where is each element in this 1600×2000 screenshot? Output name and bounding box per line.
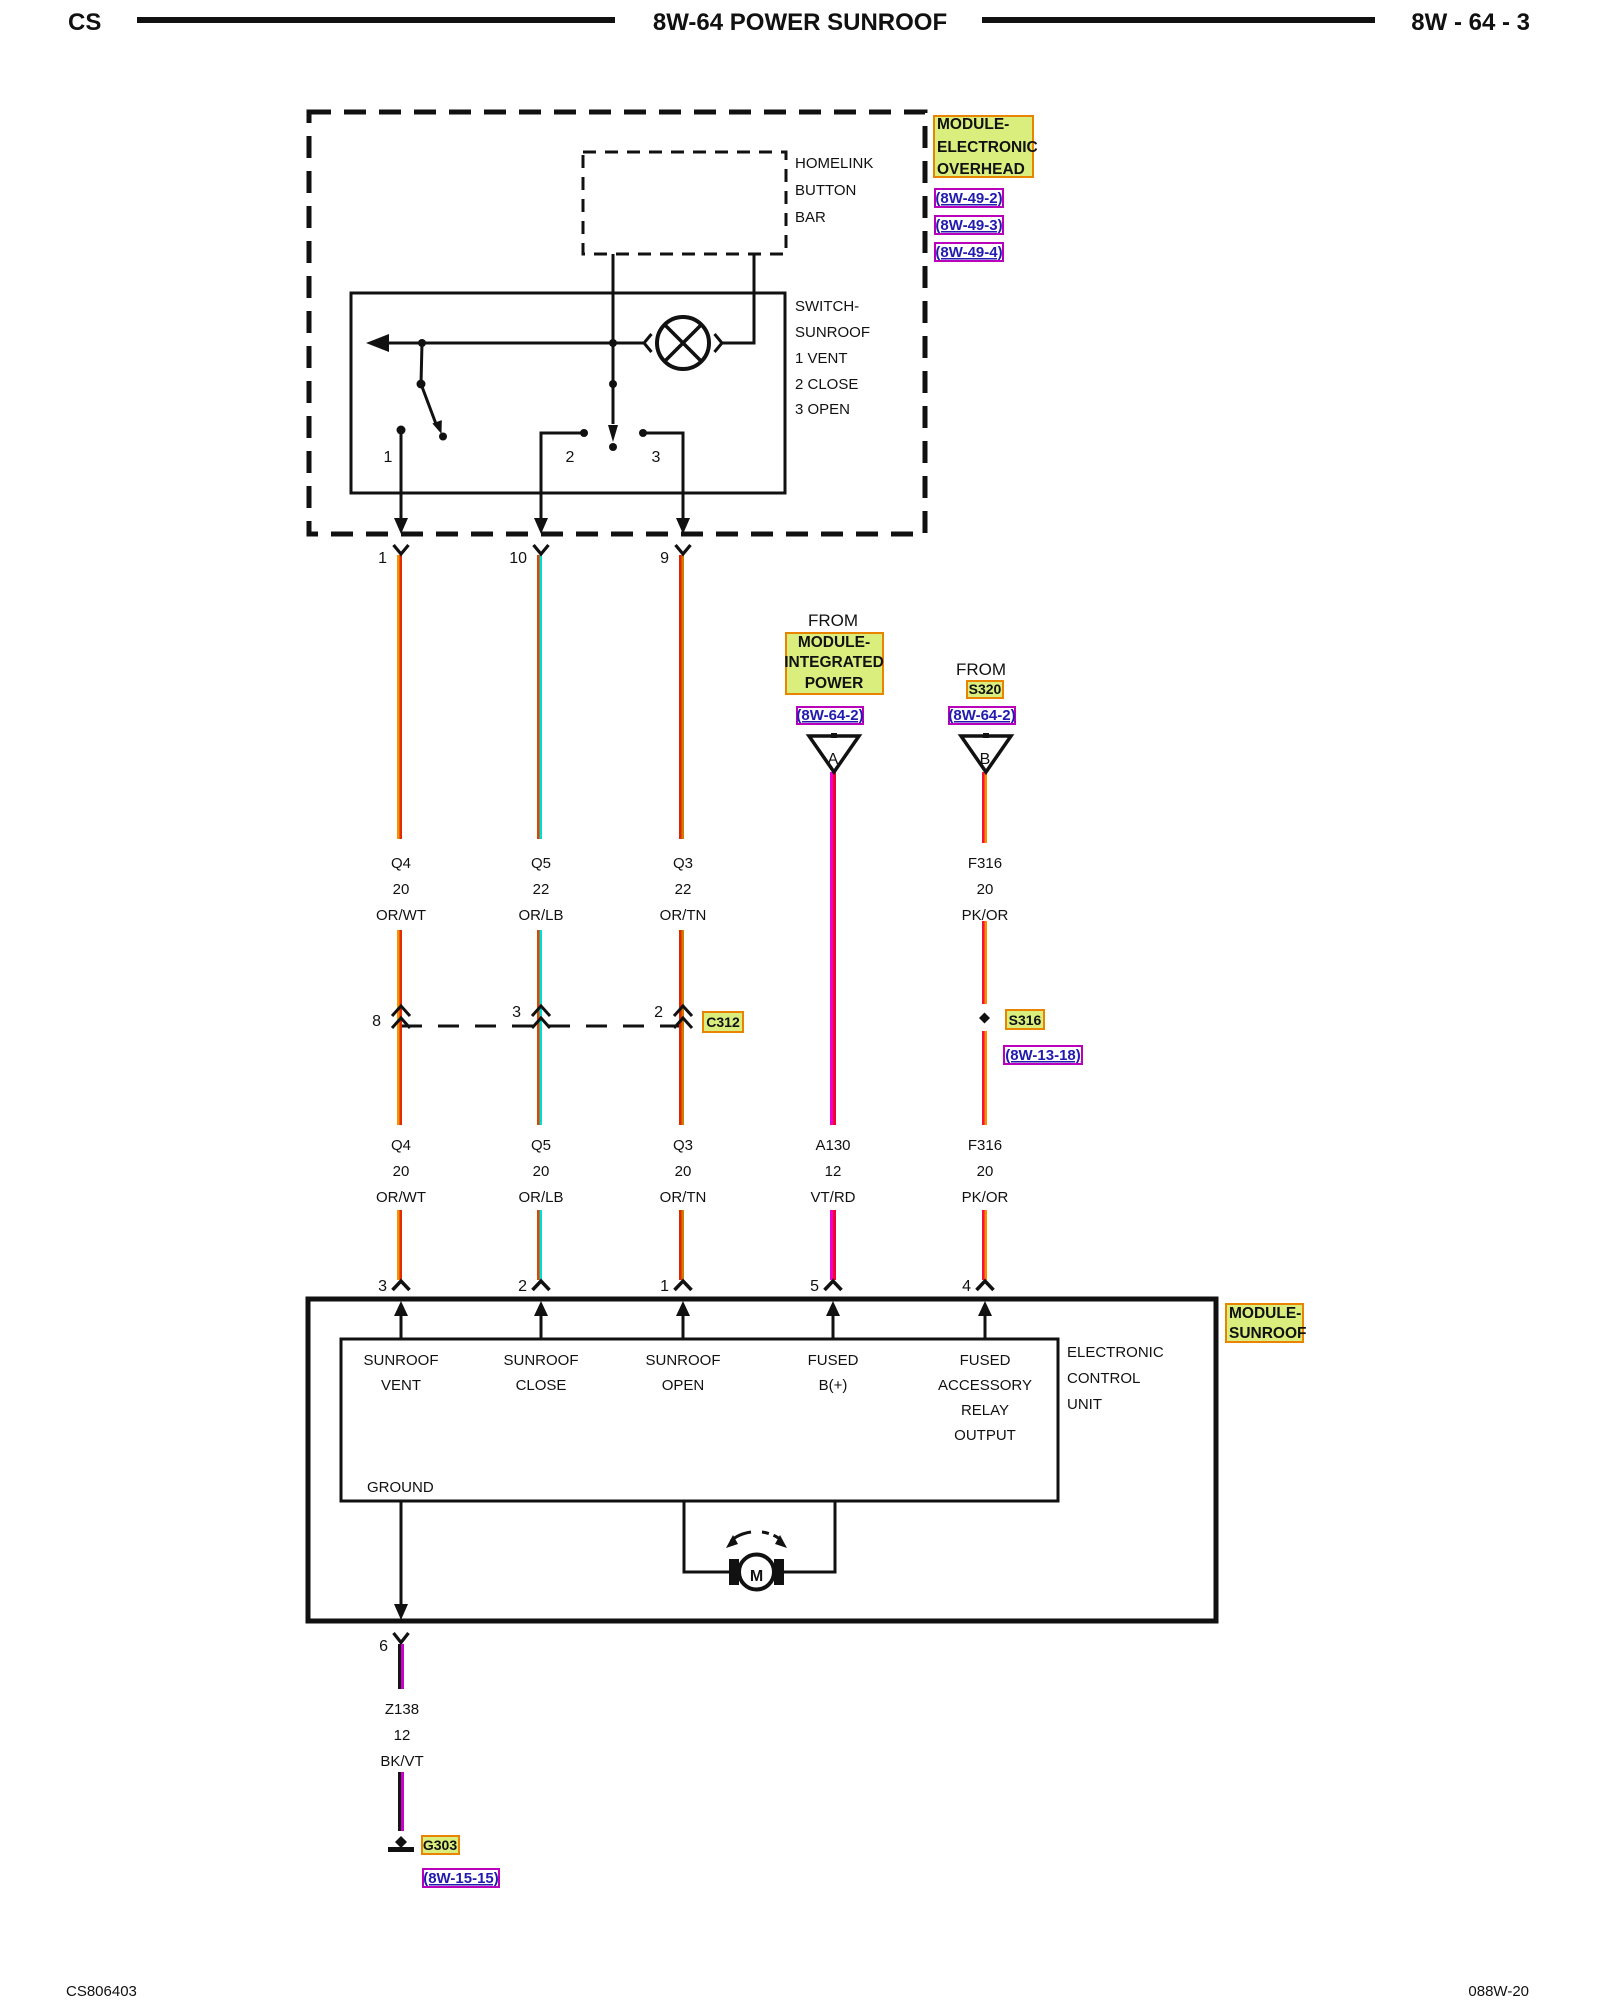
wire from homelink box to switch common — [612, 254, 615, 424]
module pin 5 connector — [810, 1278, 841, 1295]
module pin 4 connector — [962, 1278, 993, 1295]
lamp illumination — [644, 317, 722, 369]
header rule left — [137, 17, 615, 23]
header rule right — [982, 17, 1375, 23]
wire Z138 BK/VT lower — [398, 1772, 404, 1831]
svg-text:12: 12 — [394, 1727, 411, 1744]
label FUSED B(+) — [808, 1352, 859, 1394]
pin 2 entry arrow — [534, 1301, 548, 1339]
wire label Q4 20 OR/WT lower — [376, 1137, 426, 1206]
svg-text:VT/RD: VT/RD — [811, 1189, 856, 1206]
svg-text:SWITCH-: SWITCH- — [795, 298, 859, 315]
svg-text:FUSED: FUSED — [808, 1352, 859, 1369]
svg-text:CONTROL: CONTROL — [1067, 1370, 1140, 1387]
connector pin 1 — [378, 545, 408, 567]
svg-text:20: 20 — [675, 1163, 692, 1180]
FOOTER — [66, 1983, 1529, 2000]
svg-text:(8W-49-4): (8W-49-4) — [935, 244, 1002, 261]
label HOMELINK BUTTON BAR — [795, 155, 873, 226]
svg-text:8: 8 — [372, 1013, 381, 1030]
svg-text:PK/OR: PK/OR — [962, 907, 1009, 924]
svg-text:Z138: Z138 — [385, 1701, 419, 1718]
wire A130 VT/RD upper — [830, 772, 836, 1125]
label SWITCH-SUNROOF 1 VENT 2 CLOSE 3 OPEN — [795, 298, 870, 418]
wire F316 PK/OR upper — [982, 772, 987, 843]
svg-text:FUSED: FUSED — [960, 1352, 1011, 1369]
svg-text:OVERHEAD: OVERHEAD — [937, 161, 1025, 178]
motor rotation arrow left — [726, 1532, 751, 1548]
link 8W-15-15 — [423, 1869, 499, 1887]
HEADER — [68, 9, 1530, 36]
link 8W-64-2 left — [796, 707, 863, 724]
svg-text:G303: G303 — [423, 1837, 457, 1853]
module pin 2 connector — [518, 1278, 549, 1295]
svg-text:OR/LB: OR/LB — [518, 1189, 563, 1206]
connector C312 pin 2 — [654, 1004, 692, 1028]
wire label Q5 20 OR/LB lower — [518, 1137, 563, 1206]
connector C312 pin 3 — [512, 1004, 550, 1028]
svg-text:1 VENT: 1 VENT — [795, 350, 848, 367]
wire Q5 OR/LB upper — [537, 555, 542, 839]
wire Q5 OR/LB middle — [537, 930, 542, 1125]
svg-text:Q3: Q3 — [673, 855, 693, 872]
connector pin 10 — [509, 545, 548, 567]
node junction lamp feed — [609, 339, 617, 347]
wire label F316 20 PK/OR lower — [962, 1137, 1009, 1206]
wire label Q5 22 OR/LB upper — [518, 855, 563, 924]
svg-text:1: 1 — [660, 1278, 669, 1295]
svg-text:2: 2 — [566, 449, 575, 466]
link 8W-49-3 — [935, 216, 1003, 234]
svg-text:SUNROOF: SUNROOF — [795, 324, 870, 341]
svg-text:F316: F316 — [968, 1137, 1002, 1154]
svg-text:OPEN: OPEN — [662, 1377, 705, 1394]
svg-text:Q3: Q3 — [673, 1137, 693, 1154]
svg-text:F316: F316 — [968, 855, 1002, 872]
label MODULE-SUNROOF — [1226, 1304, 1307, 1342]
wire Q5 OR/LB lower — [537, 1210, 542, 1280]
svg-text:C312: C312 — [706, 1014, 740, 1030]
wire Z138 BK/VT upper — [398, 1644, 404, 1689]
svg-text:22: 22 — [675, 881, 692, 898]
motor M — [729, 1555, 784, 1590]
svg-text:SUNROOF: SUNROOF — [646, 1352, 721, 1369]
pin 1 entry arrow — [676, 1301, 690, 1339]
svg-text:088W-20: 088W-20 — [1468, 1983, 1529, 2000]
link 8W-49-2 — [935, 189, 1003, 207]
contact 1 — [394, 426, 408, 535]
wire label Q4 20 OR/WT upper — [376, 855, 426, 924]
connector pin 9 — [660, 545, 690, 567]
svg-text:2 CLOSE: 2 CLOSE — [795, 376, 858, 393]
svg-text:SUNROOF: SUNROOF — [364, 1352, 439, 1369]
svg-text:CS806403: CS806403 — [66, 1983, 137, 2000]
svg-text:ELECTRONIC: ELECTRONIC — [1067, 1344, 1164, 1361]
svg-text:MODULE-: MODULE- — [937, 116, 1009, 133]
contact 3 — [639, 429, 690, 534]
pin 5 entry arrow — [826, 1301, 840, 1339]
label ELECTRONIC CONTROL UNIT — [1067, 1344, 1164, 1413]
svg-text:Q5: Q5 — [531, 1137, 551, 1154]
label G303 — [422, 1836, 459, 1854]
svg-text:OR/TN: OR/TN — [660, 907, 707, 924]
svg-text:OR/WT: OR/WT — [376, 907, 426, 924]
svg-text:20: 20 — [977, 881, 994, 898]
svg-text:4: 4 — [962, 1278, 971, 1295]
svg-text:8W - 64 - 3: 8W - 64 - 3 — [1411, 9, 1530, 36]
label SUNROOF OPEN — [646, 1352, 721, 1394]
label S316 — [1006, 1010, 1044, 1029]
ground G303 symbol — [388, 1836, 414, 1852]
svg-text:Q4: Q4 — [391, 855, 411, 872]
label S320 — [967, 681, 1003, 698]
off-page connector B — [961, 733, 1011, 772]
off-page connector A — [809, 733, 859, 772]
svg-text:OR/LB: OR/LB — [518, 907, 563, 924]
svg-text:POWER: POWER — [805, 675, 864, 692]
label MODULE-INTEGRATED POWER — [784, 633, 884, 694]
wire Q4 OR/WT upper — [397, 555, 402, 839]
switch pole vent — [417, 343, 448, 441]
svg-text:ACCESSORY: ACCESSORY — [938, 1377, 1032, 1394]
link 8W-13-18 — [1004, 1046, 1082, 1064]
module pin 1 connector — [660, 1278, 691, 1295]
svg-text:B(+): B(+) — [819, 1377, 848, 1394]
wire from homelink box to lamp — [722, 254, 754, 343]
svg-text:2: 2 — [654, 1004, 663, 1021]
wire F316 PK/OR mid1 — [982, 921, 987, 1004]
label MODULE-ELECTRONIC OVERHEAD — [934, 116, 1038, 178]
svg-text:20: 20 — [393, 881, 410, 898]
svg-text:3: 3 — [652, 449, 661, 466]
svg-text:CLOSE: CLOSE — [516, 1377, 567, 1394]
wire common feed with left arrow — [388, 342, 644, 345]
wire F316 PK/OR lower — [982, 1210, 987, 1280]
node junction on common feed — [418, 339, 426, 347]
svg-text:A130: A130 — [815, 1137, 850, 1154]
svg-text:6: 6 — [379, 1638, 388, 1655]
connector C312 pin 8 — [372, 1006, 410, 1030]
BOTTOM GROUND — [379, 1633, 499, 1887]
switch-sunroof box — [351, 293, 785, 493]
svg-text:(8W-64-2): (8W-64-2) — [796, 707, 863, 724]
wire Q3 OR/TN upper — [679, 555, 684, 839]
motor leg right — [783, 1501, 835, 1572]
svg-text:12: 12 — [825, 1163, 842, 1180]
homelink button bar dashed box — [583, 152, 786, 254]
svg-text:(8W-13-18): (8W-13-18) — [1005, 1047, 1081, 1064]
module pin 3 connector — [378, 1278, 409, 1295]
motor leg left — [684, 1501, 730, 1572]
svg-text:M: M — [750, 1568, 763, 1585]
svg-text:22: 22 — [533, 881, 550, 898]
electronic control unit box — [341, 1339, 1058, 1501]
wire label F316 20 PK/OR upper — [962, 855, 1009, 924]
svg-text:OR/WT: OR/WT — [376, 1189, 426, 1206]
splice S316 — [979, 1013, 990, 1024]
svg-text:FROM: FROM — [808, 611, 858, 630]
svg-text:Q5: Q5 — [531, 855, 551, 872]
svg-text:(8W-64-2): (8W-64-2) — [948, 707, 1015, 724]
link 8W-64-2 right — [948, 707, 1015, 724]
svg-text:OUTPUT: OUTPUT — [954, 1427, 1016, 1444]
contact 2 — [534, 429, 588, 534]
C312 harness dashed line — [401, 1025, 694, 1028]
svg-text:MODULE-: MODULE- — [798, 634, 870, 651]
wire Q3 OR/TN lower — [679, 1210, 684, 1280]
svg-text:B: B — [980, 751, 991, 768]
svg-text:HOMELINK: HOMELINK — [795, 155, 873, 172]
pin 3 entry arrow — [394, 1301, 408, 1339]
svg-text:(8W-15-15): (8W-15-15) — [423, 1870, 499, 1887]
pin 4 entry arrow — [978, 1301, 992, 1339]
svg-text:MODULE-: MODULE- — [1229, 1305, 1301, 1322]
svg-text:8W-64 POWER SUNROOF: 8W-64 POWER SUNROOF — [653, 9, 947, 36]
svg-text:INTEGRATED: INTEGRATED — [784, 654, 884, 671]
svg-text:SUNROOF: SUNROOF — [1229, 1325, 1307, 1342]
svg-text:RELAY: RELAY — [961, 1402, 1009, 1419]
OUTER DASHED MODULE BOX — [309, 112, 1038, 534]
svg-text:9: 9 — [660, 550, 669, 567]
wire label Z138 12 BK/VT — [380, 1701, 423, 1770]
svg-text:A: A — [828, 751, 839, 768]
wire label Q3 20 OR/TN lower — [660, 1137, 707, 1206]
SWITCH AREA — [351, 254, 870, 534]
MODULE SUNROOF BOX — [308, 1299, 1307, 1621]
svg-text:3: 3 — [512, 1004, 521, 1021]
svg-text:3 OPEN: 3 OPEN — [795, 401, 850, 418]
svg-text:10: 10 — [509, 550, 527, 567]
label FUSED ACCESSORY RELAY OUTPUT — [938, 1352, 1032, 1444]
wire label A130 12 VT/RD lower — [811, 1137, 856, 1206]
WIRES COLUMNS — [372, 545, 1082, 1295]
ground internal line — [394, 1501, 408, 1620]
svg-text:BUTTON: BUTTON — [795, 182, 856, 199]
wire Q4 OR/WT middle — [397, 930, 402, 1125]
label SUNROOF CLOSE — [504, 1352, 579, 1394]
svg-text:20: 20 — [393, 1163, 410, 1180]
svg-text:1: 1 — [378, 550, 387, 567]
svg-text:S316: S316 — [1009, 1012, 1042, 1028]
motor rotation arrow right — [762, 1532, 787, 1548]
svg-text:(8W-49-3): (8W-49-3) — [935, 217, 1002, 234]
svg-text:PK/OR: PK/OR — [962, 1189, 1009, 1206]
svg-text:VENT: VENT — [381, 1377, 421, 1394]
wire A130 VT/RD lower — [830, 1210, 836, 1280]
svg-text:CS: CS — [68, 9, 101, 36]
label SUNROOF VENT — [364, 1352, 439, 1394]
link 8W-49-4 — [935, 243, 1003, 261]
wire Q3 OR/TN middle — [679, 930, 684, 1125]
switch pole center with arrow — [608, 380, 618, 451]
label C312 — [703, 1012, 743, 1032]
svg-text:2: 2 — [518, 1278, 527, 1295]
svg-text:1: 1 — [384, 449, 393, 466]
contact position numbers — [384, 449, 661, 466]
wire label Q3 22 OR/TN upper — [660, 855, 707, 924]
svg-text:OR/TN: OR/TN — [660, 1189, 707, 1206]
svg-text:FROM: FROM — [956, 660, 1006, 679]
module pin 6 connector — [379, 1633, 408, 1655]
module-electronic overhead dashed boundary — [309, 112, 925, 534]
svg-text:(8W-49-2): (8W-49-2) — [935, 190, 1002, 207]
svg-text:5: 5 — [810, 1278, 819, 1295]
svg-text:BK/VT: BK/VT — [380, 1753, 423, 1770]
svg-text:SUNROOF: SUNROOF — [504, 1352, 579, 1369]
svg-text:UNIT: UNIT — [1067, 1396, 1102, 1413]
svg-text:BAR: BAR — [795, 209, 826, 226]
wire Q4 OR/WT lower — [397, 1210, 402, 1280]
svg-text:Q4: Q4 — [391, 1137, 411, 1154]
module-sunroof outline — [308, 1299, 1216, 1621]
svg-text:GROUND: GROUND — [367, 1479, 434, 1496]
svg-text:3: 3 — [378, 1278, 387, 1295]
svg-text:20: 20 — [977, 1163, 994, 1180]
svg-text:ELECTRONIC: ELECTRONIC — [937, 139, 1038, 156]
wire F316 PK/OR mid2 — [982, 1031, 987, 1125]
svg-text:S320: S320 — [969, 681, 1002, 697]
svg-text:20: 20 — [533, 1163, 550, 1180]
